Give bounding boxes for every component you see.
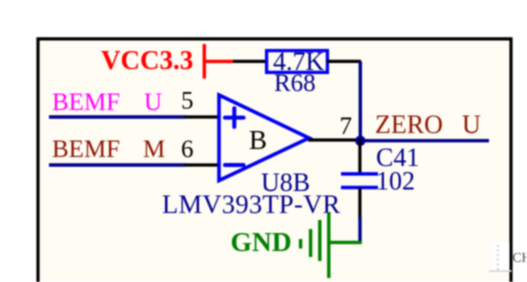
svg-text:102: 102 — [376, 167, 415, 196]
ground bar 1 (longest) — [327, 212, 330, 278]
svg-text:GND: GND — [231, 226, 292, 257]
power port VCC3.3 bar — [203, 44, 206, 79]
svg-text:6: 6 — [181, 136, 194, 163]
title block area white patch — [491, 242, 510, 271]
pin U8B.5 — [184, 115, 220, 118]
wire BEMF_M — [49, 163, 185, 167]
pin C41.1 — [358, 140, 361, 173]
svg-text:BEMF: BEMF — [52, 136, 120, 163]
wire ZERO_U — [360, 139, 489, 142]
capacitor C41 bottom plate — [341, 186, 378, 190]
pin U8B.7 — [308, 138, 361, 141]
pin C41.2 — [358, 188, 361, 219]
svg-text:VCC3.3: VCC3.3 — [101, 45, 193, 75]
pin R68.2 — [327, 60, 361, 63]
svg-text:U: U — [462, 110, 481, 139]
title block horizontal rule — [489, 270, 512, 272]
ground bar 3 — [309, 229, 312, 257]
power port VCC3.3 stub wire — [204, 60, 233, 63]
junction node — [355, 136, 365, 146]
svg-text:R68: R68 — [274, 70, 316, 97]
ground bar 2 — [318, 220, 321, 261]
op-amp minus input mark — [225, 163, 244, 167]
svg-text:B: B — [249, 125, 267, 155]
title block dotted divider — [497, 245, 499, 270]
op-amp U8B triangle — [219, 95, 309, 181]
pin R68.1 — [233, 60, 267, 63]
ground stem wire — [329, 241, 362, 244]
svg-text:M: M — [143, 136, 165, 163]
svg-text:ZERO: ZERO — [375, 110, 443, 139]
pin U8B.6 — [184, 163, 220, 166]
svg-text:7: 7 — [340, 113, 353, 140]
op-amp plus input mark — [225, 108, 244, 127]
wire capacitor to ground — [358, 217, 361, 244]
sheet frame — [38, 39, 511, 282]
svg-text:U: U — [144, 89, 162, 116]
wire BEMF_U — [49, 115, 185, 119]
svg-text:BEMF: BEMF — [52, 89, 120, 116]
wire resistor to output node — [359, 61, 362, 141]
resistor R68 body — [267, 51, 328, 73]
ground bar 4 (shortest) — [299, 239, 302, 249]
svg-text:5: 5 — [181, 88, 194, 115]
svg-text:LMV393TP-VR: LMV393TP-VR — [162, 189, 341, 219]
capacitor C41 top plate — [341, 172, 378, 176]
svg-text:CH: CH — [513, 250, 527, 265]
